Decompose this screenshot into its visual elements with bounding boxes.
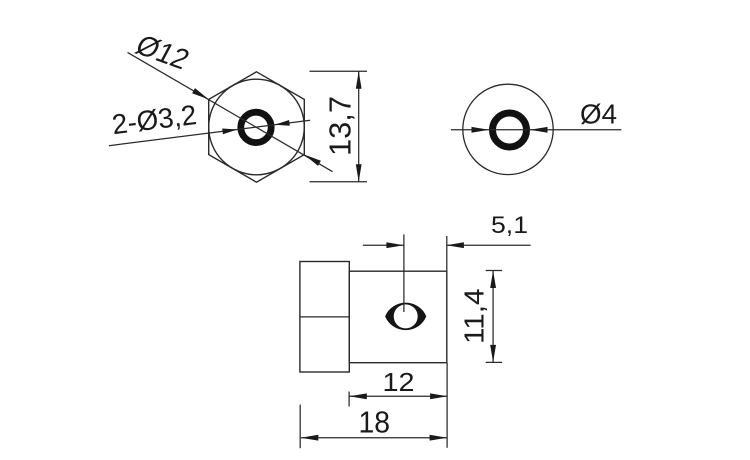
- 18 extension line left: [299, 405, 301, 449]
- 12 dimension line: [349, 395, 447, 397]
- 11,4 arrow bottom: [490, 345, 496, 363]
- 11,4 dimension line: [492, 271, 494, 363]
- D4 dimension line: [451, 129, 621, 131]
- right edge extension above body: [446, 236, 448, 271]
- 18 arrow right: [430, 435, 448, 441]
- D4 arrow right: [530, 127, 548, 133]
- 13,7 arrow bottom: [356, 164, 362, 182]
- 13,7 extension line bottom: [310, 181, 368, 183]
- leader line for 2-D3,2: [109, 120, 310, 145]
- hex section rectangle (side view): [300, 262, 349, 373]
- 13,7 arrow top: [356, 71, 362, 89]
- inscribed circle of hex (Ø12 body): [209, 79, 305, 175]
- dimension line for D12 (diagonal): [128, 52, 333, 171]
- body rectangle (side view): [349, 271, 447, 363]
- 13,7 extension line top: [310, 70, 368, 72]
- hex nut outline (front view): [209, 72, 305, 182]
- 11,4 arrow top: [490, 271, 496, 289]
- svg-text:Ø12: Ø12: [130, 30, 194, 76]
- D4 arrow left: [472, 127, 490, 133]
- hole centerline: [403, 234, 405, 312]
- 12 extension stub left: [348, 392, 350, 407]
- 12 arrow right: [430, 393, 448, 399]
- svg-text:11,4: 11,4: [459, 289, 490, 345]
- svg-text:18: 18: [359, 405, 391, 440]
- right edge extension below body: [446, 363, 448, 448]
- 18 dimension line: [301, 437, 447, 439]
- hex section middle line: [300, 316, 349, 318]
- center hole thick ring: [241, 112, 271, 142]
- 2-D3,2 arrow left: [222, 129, 237, 135]
- svg-text:5,1: 5,1: [491, 212, 528, 239]
- 13,7 dimension line: [358, 71, 360, 182]
- svg-text:2-Ø3,2: 2-Ø3,2: [110, 99, 198, 140]
- 11,4 extension tick top: [486, 270, 502, 272]
- 12 arrow left: [349, 393, 367, 399]
- 5,1 arrow left (points right): [386, 242, 404, 248]
- 5,1 arrow right (points left): [446, 242, 464, 248]
- 18 arrow left: [301, 435, 319, 441]
- 5,1 dimension line right part: [446, 244, 530, 246]
- end view hole ring: [493, 113, 527, 147]
- 11,4 extension tick bottom: [486, 361, 502, 363]
- cross hole projection (eye shape): [385, 303, 426, 331]
- 2-D3,2 arrow right: [275, 120, 290, 126]
- D12 arrow upper-left: [192, 88, 209, 99]
- 5,1 dimension line left part: [363, 244, 404, 246]
- D12 arrow lower-right: [304, 155, 321, 166]
- end view outer circle: [463, 84, 553, 174]
- svg-text:12: 12: [383, 369, 415, 397]
- svg-text:Ø4: Ø4: [580, 99, 617, 130]
- svg-text:13,7: 13,7: [322, 96, 357, 156]
